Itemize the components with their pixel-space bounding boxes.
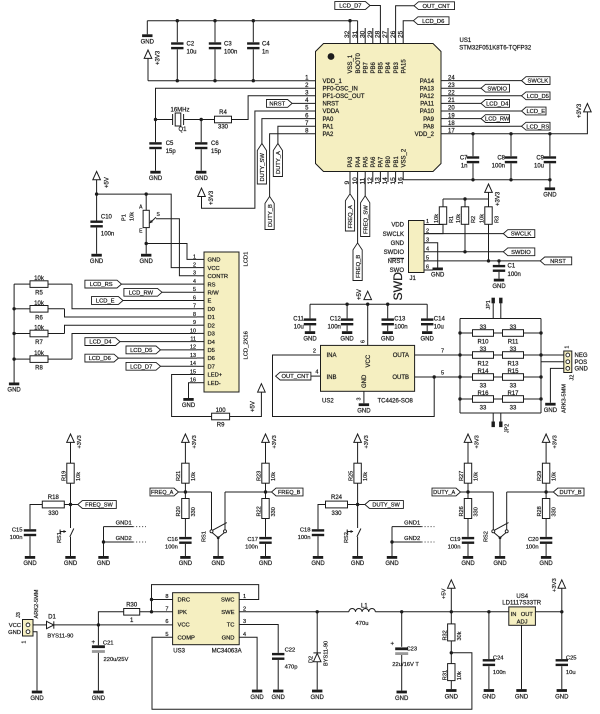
net flag LCD_D4 (PA11) <box>481 100 510 108</box>
node C8 bottom <box>509 178 512 181</box>
svg-text:PB6: PB6 <box>371 61 377 73</box>
ground C17 <box>260 556 270 559</box>
svg-text:GND: GND <box>381 336 395 342</box>
svg-text:1: 1 <box>193 254 196 260</box>
svg-text:100n: 100n <box>101 231 114 237</box>
resistor R15 33 <box>503 374 524 381</box>
net flag SWDIO (J1) <box>503 248 535 256</box>
svg-text:330: 330 <box>191 507 197 516</box>
node OUTB feedback <box>433 375 436 378</box>
svg-text:ARK3-5MM: ARK3-5MM <box>562 384 568 413</box>
svg-text:GND: GND <box>555 694 569 700</box>
wire J1 SWDIO <box>424 251 503 253</box>
ground C18 <box>313 556 323 559</box>
node C23 <box>400 610 403 613</box>
capacitor C20 100n <box>540 537 552 539</box>
power +5V arrow (backlight) <box>258 384 266 392</box>
wire network right bus <box>540 319 542 414</box>
jumper JP2 <box>492 413 494 422</box>
net flag FREQ_SW <box>78 501 117 509</box>
wire PA1 <box>278 126 316 143</box>
node left bus row 4 <box>458 397 461 400</box>
svg-text:10k: 10k <box>34 326 45 332</box>
svg-text:10k: 10k <box>363 472 369 481</box>
svg-text:330: 330 <box>271 507 277 516</box>
wire R24 to C18 <box>318 505 326 530</box>
wire VDD_2 to +3V3 <box>441 112 587 134</box>
svg-text:VDD_1: VDD_1 <box>323 79 343 85</box>
svg-text:PF0-OSC_IN: PF0-OSC_IN <box>323 86 358 92</box>
svg-text:VCC: VCC <box>366 354 372 367</box>
wire node to flag <box>358 504 365 506</box>
ground C24 <box>484 689 494 692</box>
resistor R10 33 <box>460 332 473 334</box>
resistor R22 330 <box>265 492 267 499</box>
net flag FREQ_B <box>272 488 304 496</box>
net flag SWCLK (PA14) <box>522 77 551 85</box>
svg-text:VSS_1: VSS_1 <box>348 54 354 73</box>
resistor R11 33 <box>503 330 524 337</box>
LCD1 pin 12 stub <box>197 349 204 351</box>
regulator U3 MC34063A body <box>173 593 240 645</box>
svg-text:GND: GND <box>340 336 354 342</box>
svg-text:R29: R29 <box>537 471 543 481</box>
J1 NRST overline <box>390 257 405 259</box>
svg-text:C23: C23 <box>407 647 418 653</box>
svg-text:R25: R25 <box>348 471 354 481</box>
node +5V C10 <box>95 192 98 195</box>
svg-text:330: 330 <box>474 507 480 516</box>
svg-text:GND: GND <box>259 561 273 567</box>
net flag SWDIO (PA13) <box>481 84 510 92</box>
power +5V arrow (U2) <box>364 291 372 299</box>
ground C15 <box>25 556 35 559</box>
connector J1 SWD body <box>409 221 425 273</box>
power +3V3 arrow (R21) <box>182 434 190 442</box>
svg-text:LCD_D6: LCD_D6 <box>89 356 111 362</box>
svg-text:D1: D1 <box>208 315 215 321</box>
svg-text:DUTY_A: DUTY_A <box>433 490 455 496</box>
svg-text:2: 2 <box>313 349 316 355</box>
svg-text:RS2: RS2 <box>483 531 489 542</box>
svg-text:C2: C2 <box>187 41 195 47</box>
svg-text:+3V3: +3V3 <box>496 191 502 206</box>
svg-text:330: 330 <box>218 125 229 131</box>
wire GND rail top <box>147 20 357 22</box>
wire R18 to C15 <box>30 505 42 530</box>
svg-text:OUT: OUT <box>521 612 534 618</box>
svg-text:10u: 10u <box>434 325 444 331</box>
svg-text:PB5: PB5 <box>379 61 385 73</box>
net flag LCD_D4 <box>85 338 120 346</box>
svg-text:PF1-OSC_OUT: PF1-OSC_OUT <box>323 94 365 100</box>
svg-text:1: 1 <box>243 594 246 600</box>
J2 pin 3 pad <box>566 367 570 371</box>
power +5V arrow (output) <box>448 580 456 588</box>
node +5V R32 <box>450 610 453 613</box>
wire network top rail <box>460 318 541 320</box>
svg-text:R1: R1 <box>449 216 455 223</box>
capacitor C3 <box>214 21 216 43</box>
wire COMP feedback <box>152 637 472 709</box>
ground C10 <box>91 254 101 257</box>
net flag DUTY_B <box>553 488 584 496</box>
connector J2 body <box>564 351 572 373</box>
svg-text:D0: D0 <box>208 307 215 313</box>
svg-text:LCD_D7: LCD_D7 <box>339 4 361 10</box>
svg-text:C5: C5 <box>166 141 174 147</box>
svg-text:470u: 470u <box>356 621 369 627</box>
svg-text:10u: 10u <box>534 163 544 169</box>
ground C1 <box>494 279 504 282</box>
svg-text:R17: R17 <box>507 391 519 397</box>
node C2 top <box>176 19 179 22</box>
svg-text:33: 33 <box>510 383 517 389</box>
svg-text:C22: C22 <box>285 648 296 654</box>
node R3 NRST <box>487 259 490 262</box>
svg-text:PA2: PA2 <box>323 132 335 138</box>
capacitor C19 100n <box>462 537 474 539</box>
LCD1 pin 4 stub <box>197 283 204 285</box>
svg-text:8: 8 <box>165 594 168 600</box>
svg-text:VCC: VCC <box>178 623 190 629</box>
svg-text:GND1: GND1 <box>404 521 420 527</box>
wire U2 OUTB pin 5 <box>415 376 460 378</box>
resistor R19 10k <box>67 463 74 483</box>
svg-text:TC: TC <box>227 623 235 629</box>
svg-text:GND: GND <box>23 561 37 567</box>
svg-text:16MHz: 16MHz <box>170 107 189 113</box>
svg-text:R31: R31 <box>443 670 449 680</box>
node right bus row 1 <box>539 331 542 334</box>
wire J1 VDD <box>424 225 443 234</box>
svg-text:33: 33 <box>480 347 487 353</box>
wire BOOT0 to GND rail <box>357 21 359 44</box>
svg-text:SWE: SWE <box>221 610 234 616</box>
svg-text:GND: GND <box>303 336 317 342</box>
wire U2 OUTA pin 7 <box>415 354 460 356</box>
capacitor C17 100n <box>259 537 271 539</box>
svg-text:D5: D5 <box>208 348 215 354</box>
wire U2 VCC pin 6 <box>367 304 369 345</box>
rotary encoder switch RS1 <box>211 492 213 530</box>
svg-text:C18: C18 <box>300 527 311 533</box>
wire PA5 to flag <box>364 172 366 196</box>
svg-text:GND: GND <box>431 273 445 279</box>
svg-text:JP1: JP1 <box>486 300 492 309</box>
svg-text:100: 100 <box>216 408 227 414</box>
LCD1 pin 1 stub <box>197 258 204 260</box>
svg-text:INA: INA <box>327 353 337 359</box>
svg-text:+5V: +5V <box>357 289 363 300</box>
ground U3 <box>252 690 262 693</box>
diode D2 BYS11-90 <box>316 612 318 653</box>
resistor R23 10k <box>262 463 269 483</box>
wire LCD_D6 <box>119 357 198 359</box>
svg-text:R7: R7 <box>35 340 43 346</box>
svg-text:R3: R3 <box>494 216 500 223</box>
node C12 rail <box>345 303 348 306</box>
svg-text:P1: P1 <box>122 214 128 221</box>
node C9 bottom <box>548 178 551 181</box>
svg-text:+3V3: +3V3 <box>209 190 215 205</box>
svg-text:10k: 10k <box>76 472 82 481</box>
svg-text:100n: 100n <box>492 163 505 169</box>
svg-text:US1: US1 <box>460 38 472 44</box>
svg-text:DUTY_SW: DUTY_SW <box>260 153 266 182</box>
jumper JP1 <box>492 303 494 318</box>
net flag LCD_D6 <box>85 354 119 362</box>
svg-text:SWCLK: SWCLK <box>527 79 548 85</box>
svg-text:10k: 10k <box>34 351 45 357</box>
resistor R25 10k <box>354 463 361 483</box>
wire U2 GND pin 3 <box>363 391 365 403</box>
svg-text:DRC: DRC <box>178 598 191 604</box>
node VSS_1 rail <box>348 19 351 22</box>
svg-text:PA1: PA1 <box>323 124 335 130</box>
wire LCD_E <box>123 300 197 302</box>
regulator U4 LD1117S33 body <box>509 607 536 625</box>
svg-text:POS: POS <box>575 360 588 366</box>
node C9 top <box>548 132 551 135</box>
node feedback <box>450 651 453 654</box>
net flag FREQ_A <box>150 488 179 496</box>
svg-text:MC34063A: MC34063A <box>212 649 242 655</box>
resistor R32 30k <box>450 612 452 624</box>
svg-text:BYS11-90: BYS11-90 <box>323 641 329 666</box>
svg-text:RS1: RS1 <box>57 532 63 543</box>
svg-text:GND: GND <box>179 561 193 567</box>
wire VSS_2 ground rail <box>403 172 550 180</box>
svg-text:LCD_RW: LCD_RW <box>129 290 154 296</box>
wire J1 GND <box>424 243 438 268</box>
capacitor C16 100n <box>179 537 191 539</box>
node R27 <box>466 490 469 493</box>
LCD1 module body <box>204 252 239 392</box>
svg-text:15p: 15p <box>166 149 177 155</box>
svg-text:LCD_D6: LCD_D6 <box>422 19 444 25</box>
ground C19 <box>463 556 473 559</box>
node right bus row 3 <box>539 375 542 378</box>
net flag NRST to MCU <box>267 100 293 108</box>
resistor R20 330 <box>184 492 186 499</box>
power +3V3 arrow (output) <box>558 580 566 588</box>
svg-text:ADJ: ADJ <box>517 620 528 626</box>
wire PB7 stub <box>364 28 366 44</box>
svg-text:R9: R9 <box>217 423 225 429</box>
wire R30 branch <box>98 612 124 625</box>
node C3 bottom <box>213 79 216 82</box>
svg-text:R22: R22 <box>256 506 262 516</box>
wire +5V to LCD VCC <box>97 194 197 268</box>
svg-text:R20: R20 <box>176 506 182 516</box>
svg-text:IPK: IPK <box>178 610 187 616</box>
net flag LCD_RW <box>124 288 162 296</box>
LCD1 pin 8 stub <box>197 316 204 318</box>
ground C22 <box>273 690 283 693</box>
capacitor C24 100n <box>488 612 490 659</box>
svg-text:PA15: PA15 <box>401 59 407 74</box>
svg-text:US2: US2 <box>322 399 334 405</box>
net flag LCD_D5 <box>126 346 161 354</box>
wire U4 ADJ <box>521 625 523 689</box>
svg-text:+3V3: +3V3 <box>553 435 559 448</box>
svg-text:C3: C3 <box>224 41 232 47</box>
ground GND1/GND2 <box>387 556 397 559</box>
svg-text:COMP: COMP <box>178 636 196 642</box>
svg-text:+3V3: +3V3 <box>577 103 583 118</box>
net flag LCD_RW (PA9) <box>481 115 510 123</box>
svg-text:1n: 1n <box>461 163 468 169</box>
wire GND1/GND2 down <box>103 527 105 556</box>
net flag OUT_CNT (top) <box>414 2 455 10</box>
LCD1 pin 3 stub <box>197 275 204 277</box>
LCD1 pin 2 stub <box>197 267 204 269</box>
svg-text:GND: GND <box>149 176 163 182</box>
wire PA10 <box>441 110 522 112</box>
ground U2 <box>359 403 369 406</box>
node R19 <box>69 503 72 506</box>
svg-text:PA6: PA6 <box>371 156 377 168</box>
svg-text:+3V3: +3V3 <box>364 435 370 448</box>
svg-text:100n: 100n <box>10 535 23 541</box>
svg-text:C15: C15 <box>12 527 23 533</box>
svg-text:C10: C10 <box>101 214 113 220</box>
ground <box>146 21 148 35</box>
capacitor C23 22u/16V <box>401 612 403 647</box>
svg-text:1: 1 <box>565 346 571 349</box>
J3 pin 2 pad <box>26 630 30 634</box>
capacitor C10 <box>96 194 98 220</box>
svg-text:R15: R15 <box>507 369 519 375</box>
wire node to flag <box>266 491 272 493</box>
svg-text:R2: R2 <box>471 216 477 223</box>
svg-text:C7: C7 <box>460 155 468 161</box>
power +3V3 arrow (SWD pullups) <box>485 184 493 192</box>
svg-text:6: 6 <box>165 619 168 625</box>
node R2 top <box>463 197 466 200</box>
svg-text:100n: 100n <box>224 49 237 55</box>
capacitor C5 <box>155 120 157 143</box>
svg-text:LCD_E: LCD_E <box>526 109 545 115</box>
ground RS1 <box>213 556 223 559</box>
svg-text:GND: GND <box>97 561 111 567</box>
svg-text:C17: C17 <box>247 537 258 543</box>
capacitor C13 <box>387 304 389 318</box>
svg-text:R6: R6 <box>35 315 43 321</box>
svg-text:VSS_2: VSS_2 <box>401 148 407 167</box>
svg-text:+3V3: +3V3 <box>272 435 278 448</box>
svg-text:GND: GND <box>492 284 506 290</box>
svg-text:INB: INB <box>327 375 337 381</box>
node D2 <box>316 610 319 613</box>
svg-text:PA0: PA0 <box>323 117 335 123</box>
svg-text:R11: R11 <box>508 339 519 345</box>
wire node to flag <box>546 491 553 493</box>
svg-text:PA4: PA4 <box>356 156 362 168</box>
ground C16 <box>180 556 190 559</box>
svg-text:GND: GND <box>8 630 21 636</box>
svg-text:LCD_RS: LCD_RS <box>90 282 113 288</box>
svg-text:SWDIO: SWDIO <box>487 86 507 92</box>
svg-text:LD1117S33TR: LD1117S33TR <box>502 600 541 606</box>
svg-text:SWD: SWD <box>391 272 405 301</box>
capacitor C2 <box>176 21 178 43</box>
svg-text:VDD_2: VDD_2 <box>415 132 435 138</box>
svg-text:LED-: LED- <box>208 381 221 387</box>
wire network bottom rail <box>460 412 541 414</box>
resistor R30 1 <box>124 609 140 616</box>
svg-text:4: 4 <box>315 370 318 376</box>
svg-text:LCD_D7: LCD_D7 <box>130 364 152 370</box>
svg-text:NRST: NRST <box>269 102 285 108</box>
U1 pin1 mark <box>328 53 335 60</box>
svg-text:R12: R12 <box>477 361 489 367</box>
svg-text:US4: US4 <box>516 594 528 600</box>
P1 wiper arrow <box>150 217 156 222</box>
svg-text:PA5: PA5 <box>363 156 369 168</box>
svg-text:PB0: PB0 <box>386 155 392 167</box>
wire LCD_RW <box>162 291 197 293</box>
svg-text:100n: 100n <box>328 325 341 331</box>
LCD1 pin 6 stub <box>197 300 204 302</box>
svg-text:GND: GND <box>482 694 496 700</box>
wire J1 NRST <box>424 260 540 262</box>
svg-text:LCD_E: LCD_E <box>96 299 115 305</box>
svg-text:GND: GND <box>272 695 286 701</box>
node P1 bottom <box>145 242 148 245</box>
svg-text:+5V: +5V <box>251 401 257 412</box>
svg-text:NRST: NRST <box>323 102 340 108</box>
rotary encoder switch RS2 <box>492 492 494 530</box>
svg-text:VDD: VDD <box>391 223 404 229</box>
svg-text:GND: GND <box>421 336 435 342</box>
node DRC <box>150 598 153 601</box>
wire node to flag <box>71 504 78 506</box>
svg-text:BYS11-90: BYS11-90 <box>47 634 73 640</box>
svg-text:J1: J1 <box>410 276 417 282</box>
svg-text:RS: RS <box>208 282 216 288</box>
resistor R28 330 <box>545 492 547 499</box>
svg-text:GND: GND <box>90 259 104 265</box>
svg-text:C20: C20 <box>528 537 539 543</box>
capacitor C6 <box>200 120 202 143</box>
connector J3 body <box>23 620 34 637</box>
svg-text:NRST: NRST <box>388 259 405 265</box>
svg-text:GND: GND <box>311 561 325 567</box>
svg-text:GND: GND <box>362 374 368 388</box>
wire PA9 <box>441 118 481 120</box>
ground C13 <box>383 331 393 334</box>
svg-text:FREQ_SW: FREQ_SW <box>85 503 113 509</box>
wire LCD_D6 to PA15 <box>403 21 413 44</box>
svg-text:330: 330 <box>552 507 558 516</box>
svg-text:R28: R28 <box>537 506 543 516</box>
svg-text:OUT_CNT: OUT_CNT <box>282 374 310 380</box>
node C21 <box>97 623 100 626</box>
LCD1 pin 9 stub <box>197 324 204 326</box>
svg-text:+: + <box>390 642 394 648</box>
wire PA7 stub <box>379 172 381 183</box>
wire R9 to +5V <box>230 392 262 416</box>
svg-text:10k: 10k <box>434 214 440 223</box>
wire LCD_RS <box>122 283 198 285</box>
svg-text:LED+: LED+ <box>208 373 223 379</box>
capacitor C9 <box>549 134 551 157</box>
svg-text:RS2: RS2 <box>344 532 350 543</box>
wire PA6 stub <box>372 172 374 183</box>
node C24 <box>487 610 490 613</box>
